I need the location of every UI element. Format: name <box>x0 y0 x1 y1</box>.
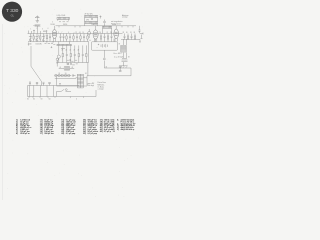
svg-text:28: 28 <box>123 32 125 34</box>
svg-text:34: 34 <box>85 73 87 75</box>
svg-text:DAF96: DAF96 <box>92 23 97 26</box>
svg-text:DL96: DL96 <box>112 24 116 26</box>
svg-text:19: 19 <box>100 32 102 34</box>
svg-text:520: 520 <box>29 44 32 46</box>
svg-text:0,47µ 1,5kΩ: 0,47µ 1,5kΩ <box>57 15 66 17</box>
svg-text:24: 24 <box>70 50 72 52</box>
svg-text:GL: GL <box>11 14 15 18</box>
svg-text:39: 39 <box>128 57 130 59</box>
svg-text:17): 17) <box>40 133 43 135</box>
svg-text:42: 42 <box>72 67 74 69</box>
svg-text:15: 15 <box>83 32 85 34</box>
svg-text:1620 kHz: 1620 kHz <box>36 44 43 46</box>
svg-text:S1: S1 <box>27 98 29 100</box>
svg-text:41: 41 <box>60 67 62 69</box>
svg-text:300 pF ker: 300 pF ker <box>44 132 54 135</box>
svg-text:20: 20 <box>62 50 64 52</box>
svg-text:kHz abgl.: kHz abgl. <box>88 85 95 87</box>
svg-text:25: 25 <box>74 50 76 52</box>
svg-text:Ua = 90 V: Ua = 90 V <box>114 53 123 55</box>
svg-text:23: 23 <box>110 32 112 34</box>
svg-text:+: + <box>97 47 98 49</box>
svg-text:42: 42 <box>106 66 108 68</box>
svg-text:MW Drkn.: MW Drkn. <box>98 84 106 86</box>
svg-text:T 330: T 330 <box>6 8 19 14</box>
svg-text:31: 31 <box>130 32 132 34</box>
svg-text:0,1 µF pap: 0,1 µF pap <box>66 133 76 135</box>
svg-text:S1: S1 <box>59 73 61 75</box>
svg-text:26: 26 <box>78 50 80 52</box>
svg-text:DF96: DF96 <box>63 24 67 26</box>
svg-text:u. Zeiger: u. Zeiger <box>98 89 105 91</box>
svg-text:+: + <box>74 32 75 34</box>
svg-text:S2: S2 <box>33 98 35 100</box>
svg-text:21: 21 <box>107 32 109 34</box>
svg-text:S4: S4 <box>49 98 51 100</box>
svg-text:43): 43) <box>100 130 103 133</box>
svg-text:0,1 µF p: 0,1 µF p <box>104 131 112 133</box>
svg-text:S3: S3 <box>65 73 67 75</box>
svg-text:14: 14 <box>79 32 81 34</box>
svg-text:10: 10 <box>46 41 48 43</box>
svg-text:30: 30 <box>126 32 128 34</box>
svg-text:22: 22 <box>66 50 68 52</box>
svg-text:ZF 452 kHz: ZF 452 kHz <box>85 14 93 16</box>
svg-text:S3: S3 <box>41 98 43 100</box>
svg-text:37: 37 <box>119 44 121 46</box>
svg-text:m. Skala: m. Skala <box>98 86 104 88</box>
svg-text:DK96: DK96 <box>51 24 55 26</box>
svg-text:26): 26) <box>61 133 64 135</box>
svg-text:33: 33 <box>134 32 136 34</box>
svg-text:0,1 µF pap: 0,1 µF pap <box>88 133 98 135</box>
svg-text:anzeige: anzeige <box>122 17 128 19</box>
svg-text:12: 12 <box>76 32 78 34</box>
svg-text:Abgl 600 kHz p: Abgl 600 kHz p <box>121 128 136 131</box>
svg-text:Ia = 10 mA: Ia = 10 mA <box>114 56 124 59</box>
svg-text:2100 pF m: 2100 pF m <box>20 133 30 135</box>
svg-text:11: 11 <box>53 41 55 43</box>
svg-text:35): 35) <box>83 133 86 135</box>
